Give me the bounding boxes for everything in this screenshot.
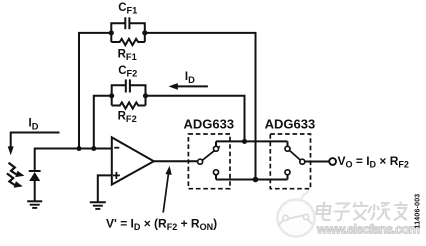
svg-text:ADG633: ADG633 [184, 117, 235, 132]
svg-text:www.elecfans.com: www.elecfans.com [316, 222, 420, 237]
svg-text:ADG633: ADG633 [265, 117, 316, 132]
svg-text:11406-003: 11406-003 [415, 194, 422, 229]
